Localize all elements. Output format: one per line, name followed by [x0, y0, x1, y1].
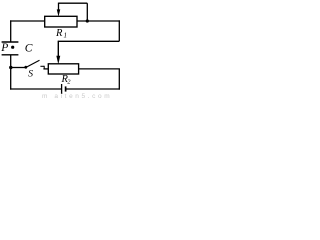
- node: junction dot on top wire: [86, 19, 89, 22]
- svg-text:R: R: [55, 28, 63, 39]
- wire: right vertical upper segment: [118, 20, 120, 41]
- wire: R1 slider arrow shaft: [58, 3, 60, 10]
- switch S blade: [26, 60, 40, 67]
- switch S terminal dot: [24, 66, 27, 69]
- wire: vertical from slider wire down to top wire: [86, 3, 88, 21]
- wire: left vertical upper (corner to capacitor top plate): [10, 20, 12, 41]
- wire: R2 right lead to right vertical: [79, 68, 120, 70]
- svg-text:S: S: [28, 69, 33, 80]
- wire: left vertical lower (bottom plate to bottom-left corner): [10, 55, 12, 89]
- particle P dot between plates: [11, 46, 14, 49]
- wire: top wire from top-left corner to top-right corner: [10, 20, 120, 22]
- wire: R2 slider vertical shaft: [57, 41, 59, 58]
- R1 slider arrowhead: [57, 9, 61, 16]
- resistor R2 (rheostat box): [48, 64, 78, 74]
- battery: short plate: [65, 86, 67, 91]
- wire: stub drop: [43, 66, 45, 69]
- wire: lead into R2 left side: [43, 68, 48, 70]
- R2 slider arrowhead: [56, 56, 60, 65]
- svg-text:C: C: [25, 43, 33, 55]
- svg-text:m aiten5.com: m aiten5.com: [42, 93, 112, 99]
- wire: switch left lead: [11, 67, 26, 69]
- svg-text:P: P: [0, 42, 8, 54]
- node: junction dot on left wire at switch branch: [9, 66, 12, 69]
- svg-text:1: 1: [64, 31, 68, 39]
- capacitor C: bottom plate: [2, 54, 19, 56]
- wire: horizontal wire to R2 slider: [58, 40, 119, 42]
- battery: long plate: [61, 84, 63, 94]
- resistor R1 (rheostat box): [45, 16, 77, 27]
- wire: right vertical lower segment: [118, 69, 120, 90]
- wire: bottom wire left of battery: [10, 88, 62, 90]
- capacitor C: top plate: [2, 41, 19, 43]
- wire: slider top wire of R1: [59, 2, 88, 4]
- wire: switch right stub: [40, 65, 44, 67]
- wire: bottom wire right of battery: [66, 88, 120, 90]
